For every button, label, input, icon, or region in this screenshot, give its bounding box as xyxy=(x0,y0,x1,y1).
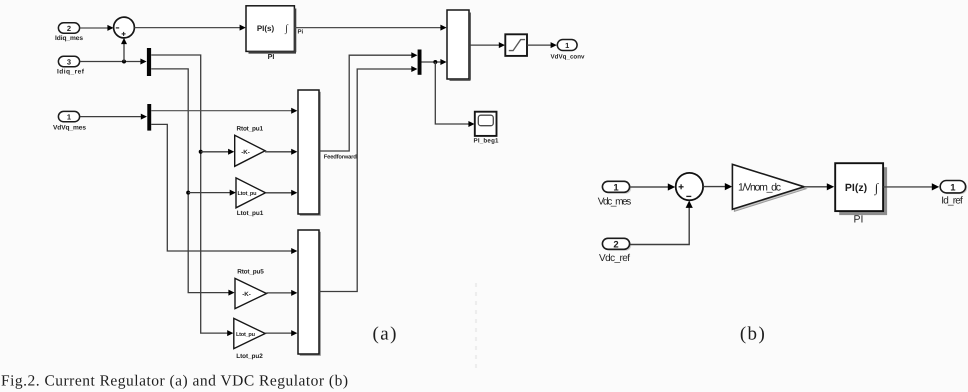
svg-text:Ltot_pu1: Ltot_pu1 xyxy=(237,210,264,217)
svg-text:Idiq_mes: Idiq_mes xyxy=(55,35,83,42)
junction demux1 out2 to gain L1 xyxy=(186,191,190,195)
wire to gain Ltot_pu1 xyxy=(188,190,236,196)
wire demux2 out1 to feedforward1 in1 xyxy=(151,108,297,114)
feedforward mux 1 xyxy=(298,90,321,216)
diagram a xyxy=(53,6,585,360)
feedforward mux 2 xyxy=(298,230,321,356)
svg-text:Ltot_pu: Ltot_pu xyxy=(236,332,256,338)
PI block PI(s) xyxy=(246,6,296,61)
PI block PI(z) xyxy=(835,163,887,225)
svg-text:2: 2 xyxy=(67,24,71,33)
saturation block xyxy=(505,34,527,56)
svg-text:1: 1 xyxy=(950,182,956,193)
svg-text:Ltot_pu2: Ltot_pu2 xyxy=(236,353,263,360)
wire VdVq_mes to demux2 xyxy=(80,114,147,120)
svg-text:PI: PI xyxy=(268,52,275,61)
wire gain to PI(z) xyxy=(804,183,834,190)
svg-text:PI: PI xyxy=(854,214,864,226)
outport 1 Id_ref xyxy=(940,181,967,207)
wire Vdc_ref up to sum - input xyxy=(630,201,693,245)
wire PI(z) to outport xyxy=(884,183,940,190)
wire sum to PI block xyxy=(135,25,246,31)
svg-text:VdVq_conv: VdVq_conv xyxy=(551,53,586,60)
junction demux1 out1 to gain R1 xyxy=(199,150,203,154)
sum block (b) xyxy=(676,173,703,200)
gain 1/Vnom_dc xyxy=(732,164,806,211)
inport 3 Idiq_ref xyxy=(57,56,85,75)
gain Ltot_pu2 xyxy=(234,318,265,360)
inport 2 Vdc_ref xyxy=(599,238,631,263)
wire sum to gain xyxy=(703,183,732,190)
scope PI_beg1 xyxy=(474,112,500,145)
wire junction down to scope xyxy=(435,62,474,127)
wire demux1 out1 down left rail xyxy=(151,55,233,336)
junction mux3 out xyxy=(433,60,437,64)
wire Vdc_mes to sum xyxy=(630,183,675,190)
inport 2 Idiq_mes xyxy=(55,23,83,42)
svg-text:Vdc_ref: Vdc_ref xyxy=(599,253,630,264)
wire feedforward1 out up to mux3 in1 xyxy=(319,52,418,151)
svg-text:(b): (b) xyxy=(740,323,766,344)
svg-text:1/Vnom_dc: 1/Vnom_dc xyxy=(738,182,781,194)
svg-text:1: 1 xyxy=(565,41,569,50)
wire junction up to sum + input xyxy=(121,38,127,62)
wire saturation to outport xyxy=(527,42,557,48)
rate transition block xyxy=(447,10,471,80)
wire Idiq_mes to sum xyxy=(80,25,114,31)
svg-text:Idiq_ref: Idiq_ref xyxy=(57,69,85,76)
wire feedforward2 out up to mux3 in2 xyxy=(319,66,418,292)
svg-text:-K-: -K- xyxy=(241,149,250,156)
outport 1 VdVq_conv xyxy=(551,40,586,61)
svg-text:Rtot_pu1: Rtot_pu1 xyxy=(237,126,264,133)
wire mux3 out to rate block in2 xyxy=(422,59,447,65)
svg-text:1: 1 xyxy=(67,113,71,122)
gain Ltot_pu1 xyxy=(236,178,266,217)
svg-text:3: 3 xyxy=(67,57,71,66)
svg-text:PI(z): PI(z) xyxy=(845,182,867,194)
wire to gain Rtot_pu1 xyxy=(201,149,235,155)
wire PI block to rate block input 1 xyxy=(295,25,447,31)
wire gain Rtot_pu5 to feedforward2 in2 xyxy=(267,290,298,296)
wire gain Rtot_pu1 to feedforward1 in2 xyxy=(265,149,297,155)
junction at ref wire xyxy=(122,60,126,64)
svg-text:1: 1 xyxy=(613,182,619,193)
svg-text:Pi: Pi xyxy=(298,29,304,36)
svg-text:Fig.2. Current Regulator (a) a: Fig.2. Current Regulator (a) and VDC Reg… xyxy=(1,373,348,390)
demux1 bar xyxy=(147,48,151,76)
svg-text:(a): (a) xyxy=(373,323,398,344)
inport 1 Vdc_mes xyxy=(598,181,632,207)
svg-text:-K-: -K- xyxy=(242,291,251,298)
gain Rtot_pu5 xyxy=(235,269,267,309)
svg-text:Vdc_mes: Vdc_mes xyxy=(598,196,632,207)
svg-text:Ltot_pu: Ltot_pu xyxy=(238,191,258,197)
sum block (a) xyxy=(114,17,135,38)
svg-text:VdVq_mes: VdVq_mes xyxy=(53,125,86,132)
svg-text:PI_beg1: PI_beg1 xyxy=(474,137,500,144)
svg-text:PI(s): PI(s) xyxy=(257,24,275,33)
svg-text:Id_ref: Id_ref xyxy=(941,196,963,207)
svg-text:Feedforward: Feedforward xyxy=(324,153,357,160)
wire gain Ltot_pu1 to feedforward1 in3 xyxy=(266,190,298,196)
diagram b xyxy=(598,163,967,344)
wire Idiq_ref to demux1 xyxy=(80,59,147,65)
wire rate block to saturation xyxy=(469,42,505,48)
svg-text:2: 2 xyxy=(613,239,618,250)
wire demux1 out2 down rail xyxy=(151,69,234,296)
svg-text:Rtot_pu5: Rtot_pu5 xyxy=(237,269,264,276)
demux2 bar xyxy=(147,104,151,131)
gain Rtot_pu1 xyxy=(235,126,265,167)
caption xyxy=(1,373,348,390)
wire demux2 out2 down to feedforward2 in1 xyxy=(151,124,297,254)
mux3 bar xyxy=(418,50,422,75)
canvas edge artifact xyxy=(475,283,477,368)
inport 1 VdVq_mes xyxy=(53,111,86,131)
wire gain Ltot_pu2 to feedforward2 in3 xyxy=(265,330,297,336)
